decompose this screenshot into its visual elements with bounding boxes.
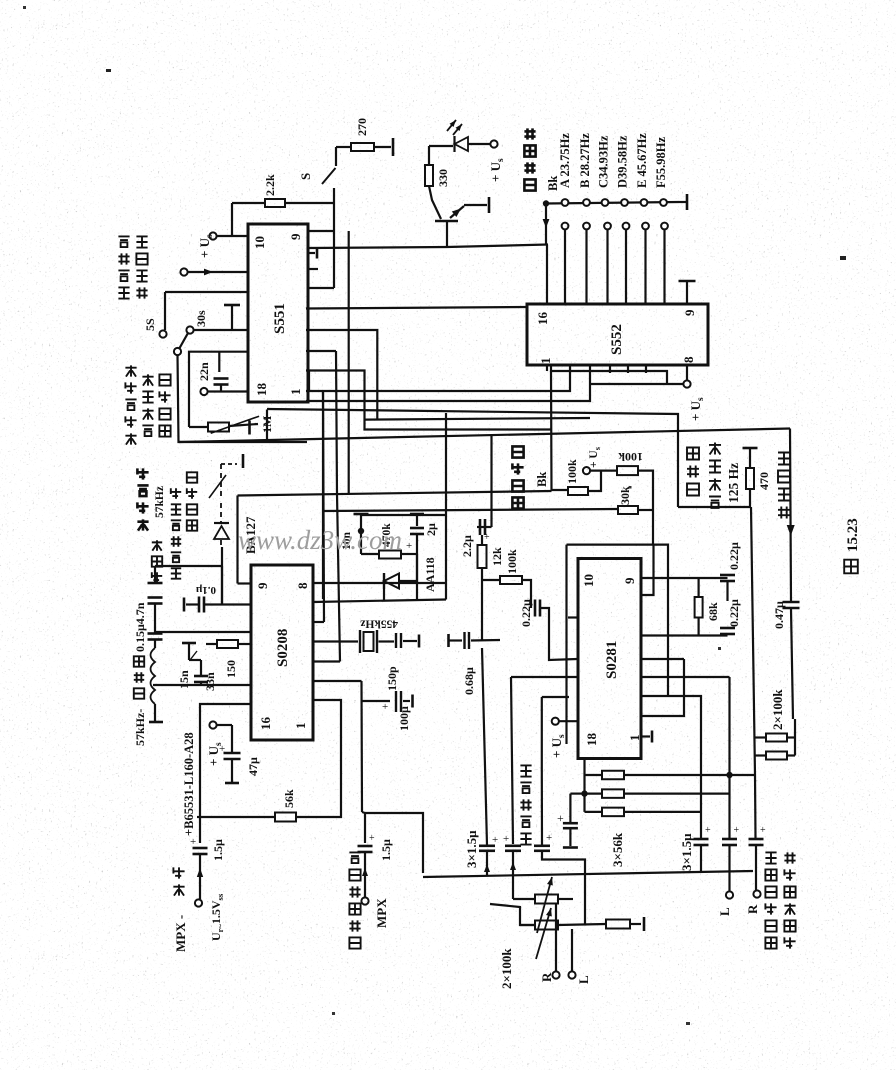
ground (R19): [643, 917, 646, 931]
svg-text:2×100k: 2×100k: [770, 689, 785, 730]
svg-text:2.2k: 2.2k: [263, 174, 277, 196]
wire S551 right pin y269: [308, 268, 318, 270]
svg-text:0.22μ: 0.22μ: [519, 599, 533, 627]
svg-text:150: 150: [224, 660, 238, 678]
svg-text:0.68μ: 0.68μ: [462, 667, 476, 695]
ground (S0281 pin1): [641, 735, 650, 737]
terminal run-check input: [180, 268, 187, 275]
resistor R5 100k: [568, 487, 588, 495]
wire 470 branch down to 56k row1: [751, 507, 755, 775]
label 立体声译码器 MPX: [349, 937, 360, 948]
wire box around radio label: [541, 697, 543, 770]
ground (S552 pin9): [686, 281, 688, 304]
wire loop bottom right: [641, 696, 701, 836]
wire S551 pin to vertical x377: [306, 330, 377, 420]
resistor R15 470: [743, 447, 758, 450]
capacitor C18 elec (pin18 area): [569, 794, 571, 822]
wire horizontal y872: [423, 871, 753, 877]
ground T (freq bus): [679, 201, 686, 203]
svg-text:S551: S551: [272, 303, 288, 334]
terminal +Us (S551 pin10): [209, 232, 216, 239]
svg-text:9: 9: [288, 233, 303, 240]
wire S0208 jog y661: [313, 660, 340, 662]
inductor L1: [151, 648, 156, 704]
terminal +Us (S0208): [209, 721, 216, 728]
svg-text:+: +: [734, 825, 740, 836]
wire box bottom y507: [678, 506, 750, 508]
svg-text:2μ: 2μ: [424, 523, 438, 536]
svg-text:1: 1: [293, 723, 308, 730]
svg-text:12k: 12k: [490, 547, 504, 566]
svg-text:D39.58Hz: D39.58Hz: [616, 135, 630, 188]
wire 56k row1 right: [624, 774, 755, 776]
wire left stubs S0281: [568, 616, 578, 618]
svg-text:0.22μ: 0.22μ: [727, 542, 741, 570]
svg-text:100μ: 100μ: [397, 706, 411, 731]
wire right edge x446: [445, 413, 447, 600]
svg-text:+: +: [382, 701, 388, 713]
wire y685 to pin: [153, 684, 251, 686]
terminal L out (pot): [571, 929, 573, 971]
svg-text:1: 1: [538, 358, 553, 365]
svg-text:10: 10: [581, 574, 596, 587]
wire x551 down to 100k: [551, 371, 568, 490]
wire Bk arrow down to S552 pin16: [545, 204, 547, 245]
freq terminals row2 + leads: [562, 223, 569, 230]
svg-text:+: +: [503, 833, 509, 845]
capacitor C12 2.2u: [477, 526, 492, 528]
wire bundle h2: [306, 365, 570, 391]
IC U4 S0281: [578, 559, 641, 759]
IC U3 S0208: [251, 565, 313, 740]
capacitor C2 0.1u: [221, 566, 223, 605]
wire bundle h5: [179, 429, 790, 443]
wire 12k branch down to cap C19: [482, 648, 487, 845]
resistor R12 12k upper: [481, 535, 483, 545]
potentiometer P1: [535, 895, 558, 904]
wire filter tap y632: [155, 631, 251, 633]
wire S551 pin wire y308: [306, 307, 527, 309]
IC U2 S552: [527, 304, 708, 365]
wire vertical x337b: [336, 351, 340, 662]
svg-text:2.2μ: 2.2μ: [460, 535, 474, 557]
LED arrows: [447, 120, 456, 131]
svg-text:100k: 100k: [505, 549, 519, 574]
potentiometer P2: [535, 921, 558, 930]
svg-text:3×1.5μ: 3×1.5μ: [679, 833, 694, 871]
wire loop upper (pin10): [567, 545, 669, 696]
svg-text:S0208: S0208: [275, 629, 291, 667]
svg-text:1.5μ: 1.5μ: [211, 839, 225, 861]
capacitor C22 1.5u (decoder): [358, 845, 373, 848]
capacitor C7 10n: [354, 513, 369, 516]
svg-text:15.23: 15.23: [845, 518, 861, 552]
svg-text:10: 10: [252, 236, 267, 249]
svg-text:100k: 100k: [618, 450, 643, 464]
label run-check 运行检查/起始脉冲: [118, 287, 129, 298]
svg-text:16: 16: [258, 717, 273, 731]
svg-text:125 Hz: 125 Hz: [726, 463, 741, 503]
nc pin T (S551 right): [308, 252, 315, 254]
wire detector top y515: [361, 514, 446, 516]
resistor R13 100k: [482, 579, 500, 581]
resistor R14 68k: [697, 578, 699, 597]
capacitor C13 0.22u: [534, 600, 537, 617]
svg-text:+: +: [219, 743, 225, 755]
capacitor C9 150p: [395, 633, 397, 648]
svg-text:5S: 5S: [143, 318, 157, 331]
svg-text:R: R: [539, 972, 554, 982]
wire 56k row3 right: [624, 811, 701, 813]
label 无线电/通话识别/125 Hz: [687, 484, 699, 496]
svg-text:15n: 15n: [177, 670, 191, 689]
wire S0208 pin8 y583: [313, 582, 446, 584]
capacitor C8 2u electrolytic: [410, 513, 424, 516]
capacitor C5 1.5u (MPX): [193, 847, 208, 850]
capacitor C1 22n loop: [189, 352, 248, 427]
wire 100k to 30k: [638, 471, 653, 510]
resistors R16-R18 3x56k: [602, 771, 624, 780]
svg-text:Ur~1.5Vss: Ur~1.5Vss: [209, 893, 225, 941]
svg-text:+ Us: + Us: [588, 446, 602, 468]
svg-text:57kHz-: 57kHz-: [133, 709, 147, 746]
IC U1 S551: [248, 224, 308, 402]
terminal +Us (LED): [468, 143, 490, 145]
LED D1: [428, 146, 430, 165]
svg-text:0.47μ: 0.47μ: [772, 601, 786, 629]
label range-id 量程识别 Bk (top): [524, 179, 535, 190]
svg-text:9: 9: [255, 582, 270, 589]
terminal MPX in: [195, 899, 202, 906]
terminal 30s + switch arm: [186, 326, 193, 333]
svg-text:S552: S552: [609, 324, 625, 355]
capacitor C15 0.22u (top right): [720, 577, 728, 579]
svg-text:F55.98Hz: F55.98Hz: [654, 137, 668, 188]
resistor R2 270: [351, 143, 374, 151]
capacitor C6 47u: [231, 725, 233, 752]
wire S0208 jog y681 to decoder: [313, 680, 362, 682]
capacitor C3 15n: [182, 642, 196, 645]
svg-text:330: 330: [436, 169, 450, 187]
wire left vertical x491: [490, 435, 492, 527]
ground (270): [392, 138, 395, 156]
svg-text:270: 270: [355, 118, 369, 136]
svg-text:30s: 30s: [194, 310, 208, 327]
label range-id 量程识别 Bk (mid): [512, 497, 523, 508]
wire y384 segment: [590, 383, 683, 385]
57kHz filter chain: [155, 565, 223, 567]
resistor R4 330: [425, 165, 433, 186]
svg-text:68k: 68k: [706, 602, 720, 621]
capacitor C10 100u electrolytic: [362, 700, 390, 702]
resistor R10 470k: [361, 553, 379, 555]
svg-text:47μ: 47μ: [246, 757, 260, 776]
wire bundle h7: [322, 391, 324, 599]
svg-text:0.15μ4.7n: 0.15μ4.7n: [133, 602, 147, 652]
svg-text:+: +: [705, 825, 711, 836]
wire S551 right pin y288: [308, 287, 334, 289]
svg-text:18: 18: [254, 383, 269, 397]
svg-text:9: 9: [622, 577, 637, 584]
label MPX-signal: [173, 884, 184, 895]
svg-text:16: 16: [535, 312, 550, 326]
ground (0.68u): [447, 634, 450, 647]
freq select terminals row1: [562, 199, 569, 206]
terminal +Us (S0281): [552, 718, 559, 725]
label 无线电通话: [520, 833, 531, 844]
svg-text:+: +: [190, 836, 196, 848]
svg-text:E 45.67Hz: E 45.67Hz: [635, 133, 649, 188]
dashed switch (quartz osc): [221, 463, 237, 465]
svg-text:B 28.27Hz: B 28.27Hz: [578, 133, 592, 188]
svg-text:8: 8: [295, 582, 310, 589]
svg-text:+ Us: + Us: [688, 397, 706, 421]
scan noise overlay: [0, 0, 1, 1]
wire collector bus: [308, 247, 447, 248]
capacitors C19-21 3x1.5u left: [479, 844, 495, 847]
svg-text:AA118: AA118: [423, 557, 437, 592]
svg-text:22n: 22n: [197, 362, 211, 381]
wire S551 pin9 to switch: [308, 230, 334, 232]
svg-text:9: 9: [682, 309, 697, 316]
svg-text:MPX -: MPX -: [173, 915, 188, 952]
wire bundle h6: [306, 350, 336, 352]
svg-text:A 23.75Hz: A 23.75Hz: [558, 133, 572, 188]
svg-text:S0281: S0281: [604, 641, 620, 679]
wire bundle h4b: [365, 418, 591, 420]
wire bundle h3: [306, 365, 590, 401]
svg-text:+: +: [369, 833, 375, 844]
ground (100u): [411, 695, 414, 708]
diode D3 AA118: [383, 573, 385, 589]
svg-text:+ Us: + Us: [197, 234, 215, 258]
svg-text:+B65531-L160-A28: +B65531-L160-A28: [182, 732, 196, 836]
svg-text:+ Us: + Us: [488, 158, 506, 182]
wire decoder to right: [365, 813, 423, 873]
wire x653 down: [652, 510, 654, 545]
svg-text:+: +: [492, 834, 498, 846]
label 报警声响: [778, 507, 790, 519]
resistor R7 30k: [618, 506, 638, 514]
wire 12k down: [481, 568, 483, 640]
wire x654 jog: [641, 545, 654, 595]
capacitor C4 33n: [194, 675, 208, 678]
nc T bar (30s wire): [231, 306, 233, 330]
svg-text:L: L: [576, 975, 591, 984]
svg-text:100k: 100k: [565, 459, 579, 484]
terminal MPX (decoder): [361, 897, 368, 904]
svg-text:S: S: [298, 173, 313, 180]
terminal 5S: [159, 330, 166, 337]
wire +Us S552 pin8: [686, 365, 688, 380]
svg-text:R: R: [745, 904, 760, 914]
wire S552 bottom stubs: [609, 365, 611, 373]
wire MPX decoder feed: [362, 812, 365, 813]
resistor R3 1M trimmer: [189, 426, 208, 428]
wire S0208 pin line y602: [313, 600, 446, 603]
wire MPX input path: [200, 704, 251, 843]
svg-text:470: 470: [757, 472, 771, 490]
svg-text:+: +: [557, 811, 564, 825]
wire 56k left junction: [581, 790, 587, 796]
svg-text:18: 18: [584, 733, 599, 747]
wire 56k row2 right: [624, 792, 730, 794]
wire S0208 jog y622: [313, 621, 324, 623]
figure caption 图 15.23: [844, 560, 858, 574]
wire bundle h4: [267, 409, 678, 507]
svg-text:0.1μ: 0.1μ: [195, 584, 216, 596]
svg-text:3×1.5μ: 3×1.5μ: [464, 830, 479, 868]
wire bundle x309 link: [308, 371, 310, 392]
resistor R6 100k (flipped label): [617, 466, 638, 475]
svg-text:2×100k: 2×100k: [499, 948, 514, 989]
capacitors C23-25 3x1.5u right: [694, 838, 709, 841]
resistor R19 (to ground): [606, 920, 630, 929]
terminal +Us (100k): [588, 471, 601, 491]
wire bundle h1: [306, 371, 552, 430]
speck marks: [106, 69, 111, 72]
wire vertical x348.7: [348, 231, 350, 494]
wire right jog x684: [641, 659, 684, 716]
svg-text:455kHz: 455kHz: [360, 618, 398, 630]
svg-text:1: 1: [627, 735, 642, 742]
svg-text:1: 1: [288, 389, 303, 396]
svg-text:30k: 30k: [618, 486, 632, 505]
crystal X1 455kHz: [313, 640, 358, 642]
svg-text:150p: 150p: [385, 666, 399, 691]
ground (emitter): [488, 197, 491, 213]
capacitor C16 0.22u (lower right): [720, 627, 735, 630]
switch arm pivot: [174, 348, 181, 355]
wire S552 pin1 col: [551, 365, 667, 384]
label 自立体声译码/器,盒式录音机: [765, 937, 776, 948]
svg-text:Bk: Bk: [535, 472, 549, 487]
resistor R8 150: [206, 643, 217, 645]
wire down from S552 pin16 col: [546, 365, 548, 371]
wire pivot down to bundle: [178, 355, 308, 442]
svg-text:3×56k: 3×56k: [610, 832, 625, 867]
wire pot network: [490, 904, 535, 925]
terminal R out (pot): [555, 903, 557, 971]
svg-text:33n: 33n: [203, 672, 217, 691]
capacitor C17 0.47u: [783, 601, 800, 604]
svg-text:+: +: [484, 532, 490, 543]
resistors 2x100k R20 R21: [766, 734, 787, 742]
svg-text:C34.93Hz: C34.93Hz: [597, 135, 611, 188]
wire right stubs S0281: [641, 658, 684, 660]
svg-text:+: +: [760, 825, 766, 836]
svg-text:57kHz: 57kHz: [154, 486, 166, 518]
arrow on right vertical: [790, 429, 791, 602]
terminal L output: [726, 891, 733, 898]
wire pin line y677 right: [641, 676, 730, 678]
label 量程转换/在接收57kHz/调幅信号时振/荡器断开: [137, 519, 148, 530]
svg-text:+: +: [546, 832, 552, 844]
svg-text:8: 8: [681, 356, 696, 363]
svg-text:MPX: MPX: [374, 898, 389, 928]
resistor R1 2.2k: [231, 203, 233, 236]
resistor R9 56k: [200, 816, 275, 818]
capacitor C11 0.68u: [449, 639, 463, 641]
wire y677 branch down to cap C20: [511, 677, 513, 844]
label alarm-sound 报警声音/延迟时间/转换开关: [125, 433, 136, 444]
wire stub x267: [266, 410, 268, 443]
terminal (22n): [200, 388, 207, 395]
svg-text:+: +: [406, 540, 412, 552]
wire pin line y635: [641, 634, 728, 636]
wire label-box down to cap C21: [541, 770, 543, 845]
switch S: [333, 188, 335, 203]
svg-text:www.dz3w.com: www.dz3w.com: [238, 525, 402, 555]
ground (1M): [248, 421, 251, 435]
svg-text:+ Us: + Us: [549, 734, 567, 758]
svg-text:L: L: [717, 907, 732, 916]
wires caps right: [700, 836, 702, 838]
svg-text:1.5μ: 1.5μ: [379, 839, 393, 861]
svg-text:0.22μ: 0.22μ: [727, 599, 741, 627]
ground (150p): [418, 635, 421, 648]
svg-text:56k: 56k: [282, 789, 296, 808]
node Bk bus with terminals: [543, 200, 549, 206]
terminal R output: [753, 890, 760, 897]
wire BA127 net: [236, 496, 238, 584]
wire vertical x324: [323, 391, 324, 622]
wire pin9 line y578: [641, 577, 720, 579]
diode D2 BA127 (dashed branch): [220, 464, 222, 497]
transistor Q1: [435, 220, 458, 223]
